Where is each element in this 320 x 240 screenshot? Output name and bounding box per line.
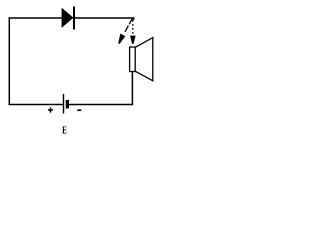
wire: right lower vertical segment (speaker to bottom) — [131, 72, 133, 106]
diode D1 triangle — [62, 9, 73, 28]
arrow (dotted vertical, pointing at speaker) — [132, 20, 134, 36]
speaker LS body (rectangle) — [130, 47, 136, 72]
speaker LS cone — [135, 38, 152, 81]
wire: bottom-left horizontal segment (to battery +) — [9, 104, 64, 106]
battery E negative plate (short thick) — [66, 100, 69, 109]
wire: bottom-right horizontal segment (from battery -) — [69, 104, 133, 106]
arrow (dashed diagonal, pointing at speaker) — [124, 18, 132, 33]
wire: left vertical segment — [8, 17, 10, 105]
diode D1 cathode bar — [73, 7, 75, 30]
wire: top-right horizontal segment (diode to corner) — [75, 18, 134, 20]
label - (battery negative) — [77, 109, 81, 111]
svg-text:E: E — [62, 124, 67, 136]
label + (battery positive) — [48, 109, 53, 111]
wire: top-left horizontal segment — [9, 17, 62, 19]
battery E positive plate (long) — [63, 94, 65, 114]
